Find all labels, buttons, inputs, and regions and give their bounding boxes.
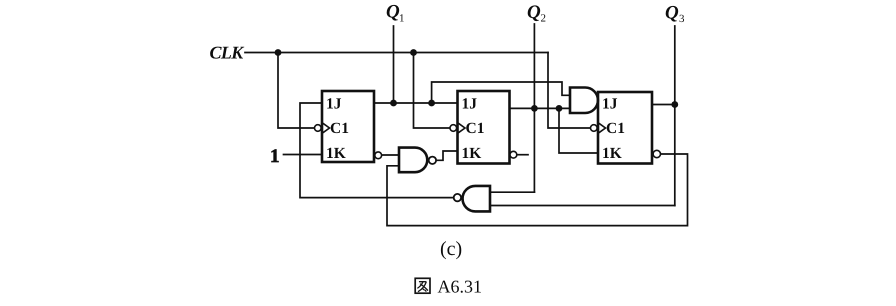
svg-text:1J: 1J (326, 96, 342, 113)
U1 pin labels 1J C1 1K (326, 96, 349, 163)
NAND gate G2 (left-facing, feeds FF1 1J) (454, 186, 490, 212)
svg-text:C1: C1 (606, 120, 625, 137)
svg-text:CLK: CLK (210, 43, 246, 63)
wire Q1 vertical (393, 26, 395, 103)
U1 clock bubble and wedge (315, 123, 330, 133)
wire NAND1 output to FF2 1K (436, 151, 457, 160)
wire FF2 Kbar stub (517, 154, 528, 156)
wire FF1 Q output to FF2 1J (374, 102, 458, 104)
AND gate G3 (feeds FF3 1J) (570, 88, 598, 114)
wire Q2 vertical (533, 24, 535, 192)
svg-text:2: 2 (541, 13, 547, 25)
svg-text:Q: Q (527, 2, 541, 23)
U1 Kbar output bubble (375, 152, 382, 159)
svg-text:Q: Q (665, 2, 679, 23)
NAND gate G1 (between FF1 and FF2) (399, 148, 436, 173)
U2 clock bubble and wedge (450, 123, 465, 133)
flip-flop U2 box (458, 91, 510, 164)
flip-flop U3 box (598, 92, 652, 164)
svg-text:1K: 1K (602, 145, 622, 162)
wire CLK lead (245, 52, 548, 54)
wire Q3 vertical (674, 26, 676, 206)
U3 pin labels 1J C1 1K (602, 96, 625, 163)
node Q2 junction (531, 105, 538, 112)
wire CLK to FF3 C1 (548, 53, 592, 129)
svg-text:Q: Q (386, 1, 400, 22)
U3 Kbar output bubble (653, 150, 660, 157)
wire CLK to FF2 C1 (414, 53, 451, 129)
wire NAND2 bottom input from Q3 (490, 205, 675, 207)
svg-text:C1: C1 (330, 120, 349, 137)
node Q1-branch junction (428, 100, 435, 107)
svg-text:1K: 1K (462, 145, 482, 162)
wire Q1 branch to AND gate top input (432, 82, 570, 103)
wire NAND2 top input from Q2 (490, 191, 534, 193)
wire FF3 Q output (652, 104, 675, 106)
svg-text:A6.31: A6.31 (438, 276, 483, 296)
svg-text:1J: 1J (462, 96, 478, 113)
svg-text:(c): (c) (440, 238, 462, 260)
node Q3 junction (671, 101, 678, 108)
U2 pin labels 1J C1 1K (462, 96, 485, 163)
wire CLK to FF1 C1 (278, 53, 314, 129)
node Q2-branch junction (556, 105, 563, 112)
node CLK-FF2 junction (410, 49, 417, 56)
node Q1 junction (390, 100, 397, 107)
flip-flop U1 box (322, 91, 374, 162)
node CLK-FF1 junction (275, 49, 282, 56)
svg-text:1: 1 (399, 13, 405, 25)
svg-text:3: 3 (679, 13, 685, 25)
svg-text:1: 1 (270, 146, 280, 167)
U3 clock bubble and wedge (591, 123, 606, 133)
svg-text:C1: C1 (466, 120, 485, 137)
svg-text:1J: 1J (602, 96, 618, 113)
svg-text:1K: 1K (326, 145, 346, 162)
wire FF1 Kbar to NAND1 top input (382, 154, 399, 156)
junction dots (275, 49, 679, 112)
U2 Kbar output bubble (510, 151, 517, 158)
wire constant 1 to FF1 1K (284, 154, 323, 156)
wire FF2 Q output row to AND gate bottom input (510, 107, 571, 109)
wire FF3 Kbar to NAND1 bottom input (387, 154, 688, 226)
wire Q2 branch down to FF3 1K (559, 108, 598, 153)
caption character tu (drawn) (415, 278, 430, 293)
wire NAND2 output to FF1 1J (300, 103, 454, 198)
